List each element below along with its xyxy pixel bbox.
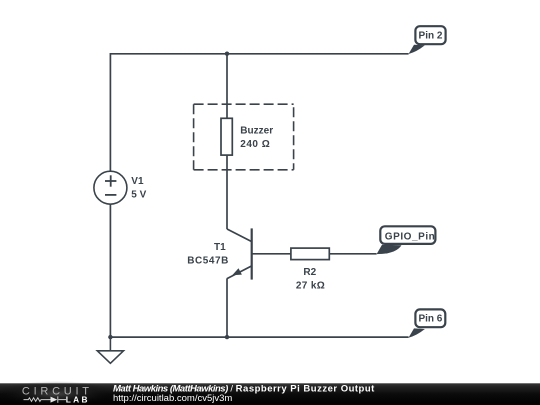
wire top horizontal net Pin 2 (110, 53, 408, 55)
net tag Pin 6 pointer (409, 328, 425, 337)
CircuitLab logo diode triangle (51, 397, 58, 403)
wire base to R2 (252, 253, 291, 255)
svg-text:BC547B: BC547B (187, 255, 229, 266)
CircuitLab logo resistor zigzag and diode lead (24, 396, 67, 402)
resistor R2 (291, 248, 329, 260)
ground (97, 337, 123, 363)
svg-text:V1: V1 (131, 176, 144, 187)
transistor T1 emitter diagonal (227, 266, 252, 279)
wire buzzer to transistor collector (226, 156, 228, 230)
wire bottom horizontal net Pin 6 (110, 336, 408, 338)
svg-text:http://circuitlab.com/cv5jv3m: http://circuitlab.com/cv5jv3m (113, 393, 232, 404)
net tag GPIO_Pin (380, 226, 435, 244)
svg-text:5 V: 5 V (131, 190, 146, 201)
node junction top (225, 52, 229, 56)
svg-text:LAB: LAB (66, 395, 90, 405)
transistor T1 collector diagonal (227, 229, 252, 242)
net tag Pin 2 pointer (409, 45, 425, 54)
voltage source V1 (94, 171, 127, 204)
svg-text:R2: R2 (303, 267, 316, 278)
svg-text:Pin 6: Pin 6 (418, 313, 442, 324)
svg-text:27 kΩ: 27 kΩ (296, 281, 325, 292)
net tag Pin 6 (415, 309, 445, 327)
node junction bottom left (108, 335, 112, 339)
label T1 BC547B (187, 242, 229, 266)
label V1 5 V (131, 176, 146, 201)
label R2 27 kohm (296, 267, 325, 291)
label Buzzer 240 ohm (240, 125, 273, 149)
buzzer dashed box (194, 104, 294, 170)
wire emitter down (226, 278, 228, 337)
transistor emitter arrow (232, 268, 242, 275)
node junction bottom middle (225, 335, 229, 339)
net tag GPIO_Pin pointer (377, 245, 402, 254)
buzzer element body (221, 118, 232, 155)
svg-text:GPIO_Pin: GPIO_Pin (385, 232, 436, 243)
transistor T1 base bar (251, 228, 253, 279)
wire middle column top (226, 54, 228, 119)
net tag Pin 2 (415, 26, 445, 44)
svg-text:Buzzer: Buzzer (240, 125, 273, 136)
footer bar (0, 383, 540, 405)
svg-text:Pin 2: Pin 2 (419, 30, 443, 41)
svg-text:T1: T1 (214, 242, 226, 253)
svg-text:240 Ω: 240 Ω (240, 139, 270, 150)
wire left vertical lower (109, 204, 111, 337)
wire R2 to GPIO tag (329, 253, 376, 255)
wire left vertical upper (109, 53, 111, 171)
